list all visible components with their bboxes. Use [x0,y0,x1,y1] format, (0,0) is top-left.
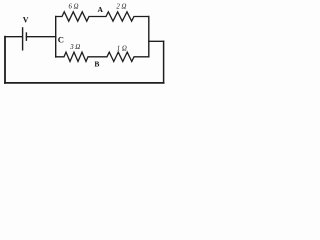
svg-text:A: A [97,5,103,14]
svg-text:V: V [23,15,29,24]
svg-text:C: C [58,34,64,44]
svg-text:6 Ω: 6 Ω [68,3,78,10]
svg-text:B: B [94,59,99,68]
svg-text:3 Ω: 3 Ω [69,44,80,51]
svg-text:2 Ω: 2 Ω [116,3,126,10]
svg-text:1 Ω: 1 Ω [117,45,127,52]
